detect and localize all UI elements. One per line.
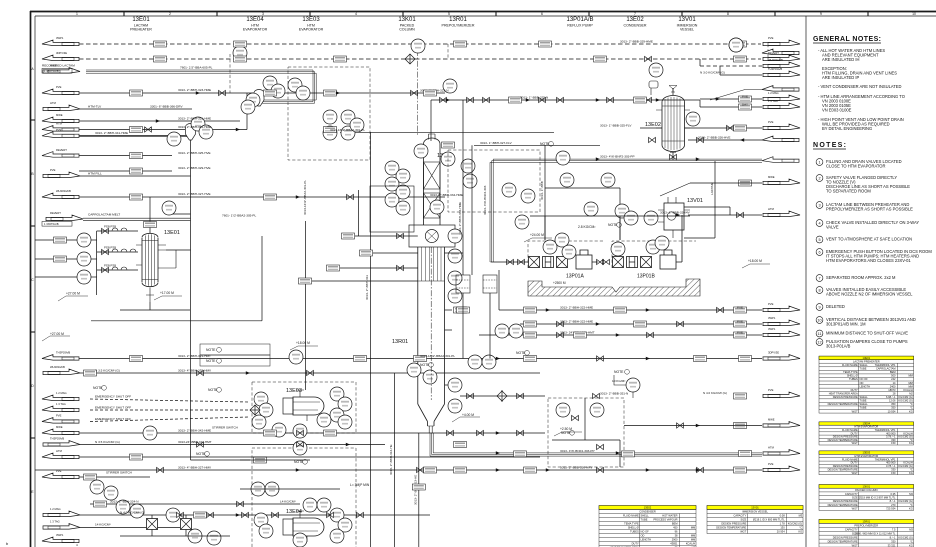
svg-text:7: 7	[634, 12, 636, 16]
wire line y515	[80, 514, 430, 516]
svg-text:KG: KG	[909, 471, 913, 475]
svg-text:WGT: WGT	[852, 507, 858, 511]
svg-text:10: 10	[817, 318, 821, 322]
svg-text:P'EB P'EB: P'EB P'EB	[104, 246, 116, 250]
svg-text:THERMINOL VP1: THERMINOL VP1	[875, 457, 896, 461]
dashed drop x448	[447, 44, 449, 59]
svg-text:2900: 2900	[672, 538, 678, 542]
svg-text:MWE: MWE	[768, 418, 775, 422]
wire valve station internals	[584, 398, 586, 440]
svg-text:13R01: 13R01	[862, 520, 870, 524]
svg-text:1 2 MAG: 1 2 MAG	[50, 507, 61, 511]
svg-text:CONDENSER: CONDENSER	[624, 24, 647, 28]
svg-text:13E01: 13E01	[164, 230, 180, 236]
svg-text:WGT: WGT	[852, 543, 858, 547]
svg-text:THERMINOL VP1: THERMINOL VP1	[875, 363, 896, 367]
svg-text:3013- 2"-BBH-327-HVE: 3013- 2"-BBH-327-HVE	[178, 192, 211, 196]
svg-text:PREPOLYMERIZER: PREPOLYMERIZER	[854, 524, 878, 528]
wire bottom pump station	[151, 515, 153, 519]
svg-text:MM: MM	[908, 381, 912, 385]
dashed enclosure 13E03	[252, 382, 356, 433]
svg-text:+27.00 M: +27.00 M	[50, 332, 64, 336]
data table 13E03	[819, 451, 914, 475]
pipe prepolymer heavy y454.5	[430, 453, 762, 456]
svg-text:3013- 2"-BBH-321-HME: 3013- 2"-BBH-321-HME	[178, 117, 211, 121]
svg-text:PVE: PVE	[56, 414, 62, 418]
svg-text:9: 9	[820, 12, 822, 16]
dashed enclosure 13E04	[252, 448, 356, 547]
data table 13E02	[599, 506, 696, 547]
line tag boxes	[54, 41, 752, 507]
svg-text:DAY: DAY	[742, 103, 748, 107]
svg-text:EMERGENCY SHUT OFF: EMERGENCY SHUT OFF	[95, 417, 131, 421]
svg-text:°C: °C	[910, 468, 913, 472]
svg-text:13K01: 13K01	[398, 17, 416, 23]
svg-text:TEMA TYPE: TEMA TYPE	[624, 522, 639, 526]
svg-text:+24.00 M: +24.00 M	[530, 233, 544, 237]
manifold box left of column	[370, 186, 414, 232]
vertical pipe labels	[303, 180, 714, 505]
dashed enclosure pump A	[528, 241, 604, 268]
svg-text:HTM: HTM	[768, 446, 775, 450]
svg-text:BEM: BEM	[672, 522, 678, 526]
vertical line fitting	[412, 484, 425, 490]
notes column divider	[805, 16, 807, 547]
svg-text:SHELL Ø: SHELL Ø	[847, 374, 858, 378]
svg-text:4: 4	[355, 12, 357, 16]
svg-text:HTM EVAPORATORS AND CLOSES 23X: HTM EVAPORATORS AND CLOSES 23XV-01	[826, 258, 911, 263]
svg-text:3013- 1"-BBB-325-N: 3013- 1"-BBB-325-N	[520, 96, 548, 100]
svg-text:EVAPORATOR: EVAPORATOR	[299, 28, 324, 32]
svg-text:3013- 4'/6'-BNF2-303: 3013- 4'/6'-BNF2-303	[483, 185, 487, 215]
svg-text:°C: °C	[910, 503, 913, 507]
svg-text:3013- 2"-BBH-325-HVE: 3013- 2"-BBH-325-HVE	[178, 151, 211, 155]
svg-text:3013- 2"-BBB-351-N: 3013- 2"-BBB-351-N	[600, 392, 628, 396]
svg-text:EMERGENCY SHUT OFF: EMERGENCY SHUT OFF	[95, 406, 131, 410]
wire line y457	[79, 456, 540, 458]
svg-text:°C: °C	[799, 526, 802, 530]
wire line y335	[479, 334, 762, 336]
svg-text:6: 6	[818, 250, 820, 254]
svg-text:CAPACITY: CAPACITY	[734, 514, 747, 518]
svg-text:+27.00 M: +27.00 M	[66, 292, 80, 296]
wire line y121	[79, 120, 240, 122]
wire left stub lines x51 circles	[91, 239, 97, 241]
wire line y171	[79, 170, 172, 172]
svg-text:HTM: HTM	[56, 449, 63, 453]
svg-text:1 2 MAG: 1 2 MAG	[768, 91, 779, 95]
svg-text:ABOVE NOZZLE N2 OF IMMERSION V: ABOVE NOZZLE N2 OF IMMERSION VESSEL	[826, 292, 913, 297]
svg-text:M3: M3	[909, 492, 913, 496]
wire dashed vent header 2	[79, 58, 761, 60]
vent assembly near 13E02	[649, 81, 658, 95]
notes heading	[813, 142, 846, 149]
svg-text:3WP1: 3WP1	[768, 316, 776, 320]
svg-text:2400: 2400	[890, 384, 896, 388]
left inbound connectors pointing right	[43, 68, 80, 530]
svg-text:20 934: 20 934	[777, 530, 785, 534]
svg-text:FLUID NAME: FLUID NAME	[842, 363, 858, 367]
svg-text:3013-24"-BBH-311-HMT: 3013-24"-BBH-311-HMT	[178, 440, 212, 444]
svg-text:SHELL Ø: SHELL Ø	[628, 526, 639, 530]
svg-text:NO OF: NO OF	[641, 530, 650, 534]
svg-text:13E01: 13E01	[863, 356, 871, 360]
svg-text:3013-16'/2'-BBA2-301-PL: 3013-16'/2'-BBA2-301-PL	[330, 128, 365, 132]
svg-text:CAPROLACTAM: CAPROLACTAM	[876, 367, 896, 371]
svg-text:PREHEATER: PREHEATER	[130, 28, 152, 32]
svg-text:3013- 4'/6'-BNF2-303-PP: 3013- 4'/6'-BNF2-303-PP	[600, 155, 635, 159]
svg-text:9: 9	[818, 305, 820, 309]
svg-text:12: 12	[817, 340, 821, 344]
svg-text:KG: KG	[909, 543, 913, 547]
wire 13E01 feed lines	[35, 239, 77, 241]
svg-text:HTM-TLV: HTM-TLV	[88, 104, 102, 108]
wire vertical x190	[190, 136, 192, 460]
svg-text:0.35: 0.35	[890, 492, 896, 496]
svg-text:3013- 1"-BBB-325-FLV: 3013- 1"-BBB-325-FLV	[600, 124, 632, 128]
svg-text:N 3.5 KG/CM² (G): N 3.5 KG/CM² (G)	[95, 369, 120, 373]
wire long line y358.5	[79, 358, 762, 360]
svg-text:DESIGN PRESSURE: DESIGN PRESSURE	[721, 522, 746, 526]
elevation marks	[160, 225, 762, 487]
svg-text:13E02: 13E02	[644, 506, 652, 510]
svg-text:M3: M3	[799, 514, 803, 518]
svg-text:350: 350	[891, 402, 896, 406]
svg-text:8: 8	[727, 12, 729, 16]
drum pot A	[456, 275, 470, 293]
svg-text:150: 150	[891, 441, 896, 445]
svg-text:Ø219 MM ID X 2 897 MM TL/TL: Ø219 MM ID X 2 897 MM TL/TL	[859, 496, 896, 500]
wire valve station outlet y425.5	[624, 425, 762, 427]
svg-text:VN E003 0100E: VN E003 0100E	[822, 108, 852, 113]
wire vertical x418.8	[418, 433, 420, 547]
svg-text:330: 330	[891, 468, 896, 472]
pump group 13P01A	[529, 250, 599, 269]
svg-text:7601- 2.5"-BBA-605-PL: 7601- 2.5"-BBA-605-PL	[180, 66, 213, 70]
general notes heading	[813, 36, 881, 43]
svg-text:PVE: PVE	[56, 469, 62, 473]
svg-text:330: 330	[891, 539, 896, 543]
dashed centerline 13K01	[417, 50, 419, 136]
svg-text:SIZE: SIZE	[741, 518, 747, 522]
svg-text:MM: MM	[691, 534, 695, 538]
svg-text:3013- 2"-BBH-341-HME: 3013- 2"-BBH-341-HME	[95, 131, 128, 135]
svg-text:PVE: PVE	[737, 306, 743, 310]
svg-text:13E04: 13E04	[246, 17, 264, 23]
svg-text:GENERAL NOTES:: GENERAL NOTES:	[813, 36, 881, 43]
svg-text:3013- 2"-BBH-329-HVE: 3013- 2"-BBH-329-HVE	[178, 166, 211, 170]
svg-text:3013- 1"-BBB: 3013- 1"-BBB	[540, 181, 544, 200]
svg-text:VALVE: VALVE	[826, 225, 839, 230]
wire slant inbound y89.5	[710, 90, 762, 101]
svg-text:NOTES:: NOTES:	[813, 142, 846, 149]
svg-text:3013- 2"-BBH-322-HME: 3013- 2"-BBH-322-HME	[560, 306, 593, 310]
svg-text:CAPACITY: CAPACITY	[845, 527, 858, 531]
svg-text:KG/CM2 (G): KG/CM2 (G)	[898, 399, 913, 403]
svg-text:HOT WATER: HOT WATER	[662, 514, 677, 518]
svg-text:M2: M2	[909, 391, 913, 395]
svg-text:DELETED: DELETED	[826, 304, 845, 309]
svg-text:DESIGN PRESSURE: DESIGN PRESSURE	[833, 535, 858, 539]
svg-text:2.8 KG/CM²: 2.8 KG/CM²	[578, 225, 596, 229]
svg-text:KCAL/H: KCAL/H	[903, 388, 912, 392]
svg-text:3013- 2"-BBB-336-HRV: 3013- 2"-BBB-336-HRV	[560, 466, 593, 470]
svg-text:+17.00 M: +17.00 M	[160, 291, 174, 295]
data table 13E01	[819, 356, 914, 413]
svg-text:725 934: 725 934	[886, 507, 896, 511]
wire line y310	[499, 309, 762, 311]
svg-text:NOTE: NOTE	[614, 370, 624, 374]
svg-text:LACTAM: LACTAM	[710, 182, 714, 195]
svg-text:1 3 TAG: 1 3 TAG	[56, 402, 66, 406]
wire line y444.5	[80, 444, 385, 446]
svg-text:ARE INSULATED IH: ARE INSULATED IH	[822, 57, 860, 62]
svg-text:KG: KG	[909, 441, 913, 445]
wire line y527.5	[80, 527, 180, 529]
drum pot B	[483, 275, 497, 293]
svg-text:8: 8	[818, 288, 820, 292]
dashed enclosure top evaporator	[288, 67, 370, 160]
note flags	[93, 142, 618, 464]
svg-text:DESIGN PRESSURE: DESIGN PRESSURE	[833, 499, 858, 503]
svg-text:P'EB P'EB: P'EB P'EB	[104, 264, 116, 268]
svg-text:PVE: PVE	[768, 388, 774, 392]
numbered notes	[826, 159, 932, 349]
svg-text:SHELL: SHELL	[860, 402, 869, 406]
svg-text:3013- 4"-BBH-327-HMV: 3013- 4"-BBH-327-HMV	[178, 466, 212, 470]
svg-text:WGT: WGT	[852, 409, 858, 413]
svg-text:TUBE: TUBE	[860, 406, 867, 410]
svg-text:PVE: PVE	[768, 302, 774, 306]
svg-text:43851: 43851	[670, 542, 678, 546]
caprolactam melt tag	[42, 222, 72, 227]
svg-text:°C: °C	[910, 406, 913, 410]
data table 13R01	[819, 519, 914, 547]
valve train mini symbols	[104, 225, 136, 271]
svg-text:SEPARATED ROOM APPROX. 2x2 M: SEPARATED ROOM APPROX. 2x2 M	[826, 275, 896, 280]
svg-text:REVERT: REVERT	[768, 51, 779, 55]
svg-text:- VENT CONDENSER ARE NOT INSUL: - VENT CONDENSER ARE NOT INSULATED	[818, 84, 902, 89]
svg-text:13V01: 13V01	[687, 198, 703, 204]
svg-text:HTM EVAPORATOR: HTM EVAPORATOR	[854, 454, 878, 458]
wire line y197	[79, 196, 445, 198]
border tick marks	[31, 12, 869, 439]
svg-text:HEAT TRANSFER AREA: HEAT TRANSFER AREA	[829, 391, 858, 395]
vessel 13R01 prepolymerizer	[410, 247, 452, 433]
svg-text:13K01: 13K01	[863, 484, 871, 488]
svg-text:EVAPORATOR: EVAPORATOR	[243, 28, 268, 32]
control valve right of R01	[626, 378, 640, 392]
svg-text:8 / -1: 8 / -1	[890, 499, 896, 503]
svg-text:1: 1	[818, 160, 820, 164]
svg-text:BEM: BEM	[890, 370, 896, 374]
svg-text:PVE: PVE	[768, 36, 774, 40]
recovered lactam tag	[42, 69, 72, 74]
svg-text:PVE: PVE	[56, 85, 62, 89]
svg-text:SIZE: SIZE	[852, 496, 858, 500]
svg-text:NOTE: NOTE	[206, 348, 216, 352]
svg-text:PVE: PVE	[737, 320, 743, 324]
svg-text:EMERGENCY SHUT OFF: EMERGENCY SHUT OFF	[95, 395, 131, 399]
svg-text:3WP1: 3WP1	[56, 533, 64, 537]
extra balloons clusters	[90, 38, 743, 512]
svg-text:IMMERSION VESSEL: IMMERSION VESSEL	[742, 510, 768, 514]
wire line y477	[79, 476, 150, 478]
svg-text:13E04: 13E04	[286, 509, 302, 515]
vessel 13E02 condenser	[656, 86, 690, 153]
wire line y373	[80, 372, 540, 374]
svg-text:WH3034A/B: WH3034A/B	[768, 58, 783, 62]
svg-text:LACTAM PREHEATER: LACTAM PREHEATER	[853, 359, 880, 363]
R01 left feed lines	[306, 221, 418, 390]
wire vertical x431 column feed	[430, 100, 432, 141]
svg-text:+18.00 M: +18.00 M	[296, 341, 310, 345]
svg-text:10 KG/M²: 10 KG/M²	[612, 379, 625, 383]
stirrer switch labels	[106, 95, 748, 475]
svg-text:N 4.0 KG/CM² (G): N 4.0 KG/CM² (G)	[703, 391, 727, 395]
svg-text:1 3 TAG: 1 3 TAG	[50, 520, 60, 524]
column 13K01 packed column	[424, 134, 441, 225]
instrument balloons	[77, 39, 700, 547]
svg-text:3013- 1"-BBH-327-FLV: 3013- 1"-BBH-327-FLV	[480, 141, 513, 145]
svg-text:MWE: MWE	[50, 64, 57, 68]
svg-text:VENT TO ATMOSPHERE AT SAFE LOC: VENT TO ATMOSPHERE AT SAFE LOCATION	[826, 237, 912, 242]
wire line y132	[340, 131, 554, 133]
svg-text:REVERT: REVERT	[50, 211, 61, 215]
wire 13E02 bottom to heavy line	[672, 152, 674, 160]
svg-text:3013P01A/B MIN. 1M: 3013P01A/B MIN. 1M	[826, 322, 866, 327]
note boxes near valves	[200, 344, 270, 366]
heat exchanger 13E04	[283, 511, 324, 542]
wire line y93	[79, 92, 445, 94]
wire line y183	[690, 182, 762, 184]
svg-text:OD: OD	[641, 534, 645, 538]
svg-text:13P01A/B: 13P01A/B	[566, 17, 593, 23]
svg-text:3013- 4"-BBH-355-HMV: 3013- 4"-BBH-355-HMV	[178, 369, 212, 373]
svg-text:DUTY: DUTY	[851, 461, 858, 465]
funnel seal pot mid	[186, 124, 196, 141]
svg-text:10: 10	[912, 12, 916, 16]
svg-text:PREPOLYMERIZER: PREPOLYMERIZER	[442, 24, 475, 28]
dashed drop x768	[767, 44, 769, 59]
frame left border	[30, 11, 32, 547]
svg-text:+4.00 M: +4.00 M	[462, 413, 474, 417]
svg-text:PVE: PVE	[50, 168, 56, 172]
pump group 13P01B	[613, 215, 683, 269]
svg-text:CAPACITY: CAPACITY	[845, 492, 858, 496]
svg-text:8 / -1: 8 / -1	[890, 535, 896, 539]
svg-text:NOTE: NOTE	[206, 359, 216, 363]
valve station balloons	[556, 403, 570, 417]
diamond junction x502	[497, 391, 507, 401]
svg-text:3013- 2"-BBH-334-HME: 3013- 2"-BBH-334-HME	[430, 193, 463, 197]
svg-text:CHECK VALVE INSTALLED DIRECTLY: CHECK VALVE INSTALLED DIRECTLY ON 3-WAY	[826, 220, 919, 225]
svg-text:13V01: 13V01	[751, 506, 759, 510]
wire line y145	[474, 144, 600, 146]
svg-text:DUTY: DUTY	[632, 542, 639, 546]
svg-text:3013- 2"-BBH-342-HME: 3013- 2"-BBH-342-HME	[178, 429, 211, 433]
extra tag boxes	[84, 41, 647, 518]
svg-text:13E01: 13E01	[132, 17, 150, 23]
svg-text:+18.00 M: +18.00 M	[748, 259, 762, 263]
wire right stubs y66 y75	[700, 65, 762, 67]
svg-text:3013-P01A/B: 3013-P01A/B	[826, 344, 851, 349]
svg-text:KG/CM2 (G): KG/CM2 (G)	[898, 535, 913, 539]
svg-text:SHELL: SHELL	[860, 363, 869, 367]
svg-text:DESIGN TEMPERATURE: DESIGN TEMPERATURE	[828, 402, 858, 406]
svg-text:N 3.5 KG/CM² (G): N 3.5 KG/CM² (G)	[95, 440, 120, 444]
dashed enclosure column right	[448, 150, 540, 212]
svg-text:PVE: PVE	[768, 120, 774, 124]
svg-text:WGT: WGT	[852, 441, 858, 445]
svg-text:18973: 18973	[888, 388, 896, 392]
wire long line y470	[35, 469, 762, 471]
svg-text:COLUMN: COLUMN	[399, 28, 415, 32]
wire line y253	[445, 252, 464, 254]
svg-text:14 KG/CM²: 14 KG/CM²	[95, 523, 110, 527]
wire vertical x370	[370, 132, 372, 547]
svg-text:1.78: 1.78	[780, 522, 786, 526]
diamond junction vent	[405, 54, 415, 64]
svg-text:1 3X0T0A/B: 1 3X0T0A/B	[44, 222, 59, 226]
wire line y140 inbound	[688, 139, 762, 141]
svg-text:3DPV/3E: 3DPV/3E	[56, 51, 67, 55]
right inbound connectors pointing left	[762, 49, 799, 162]
left off-page connectors	[42, 40, 79, 479]
wire line y155.6	[79, 155, 172, 157]
bottom lines additions	[240, 460, 340, 489]
wire emergency shutoff dashed	[90, 399, 248, 402]
svg-text:DESIGN TEMPERATURE: DESIGN TEMPERATURE	[716, 526, 746, 530]
wire 13V01 outlet y215	[688, 214, 762, 216]
svg-text:400 000: 400 000	[886, 461, 896, 465]
svg-text:VESSEL: VESSEL	[680, 28, 694, 32]
svg-text:MWE: MWE	[56, 425, 63, 429]
flow arrowheads	[156, 91, 744, 516]
svg-text:HTM: HTM	[768, 207, 775, 211]
svg-text:6: 6	[541, 12, 543, 16]
svg-text:TUBES: TUBES	[849, 377, 858, 381]
wire vertical x620	[619, 188, 621, 240]
svg-text:242: 242	[891, 377, 896, 381]
svg-text:TH3P03A/B: TH3P03A/B	[56, 351, 70, 355]
svg-text:PREPOLYMERIZER AS SHORT AS POS: PREPOLYMERIZER AS SHORT AS POSSIBLE	[826, 207, 913, 212]
svg-text:KCAL/H: KCAL/H	[686, 542, 695, 546]
frame top border	[30, 11, 936, 13]
svg-text:270: 270	[891, 503, 896, 507]
general notes body	[818, 48, 905, 131]
svg-text:REFLUX PUMP: REFLUX PUMP	[567, 24, 593, 28]
wire vertical x545	[544, 145, 546, 240]
svg-text:KG: KG	[909, 409, 913, 413]
wire line y136 double	[79, 135, 191, 137]
svg-text:1: 1	[76, 12, 78, 16]
svg-text:7.5: 7.5	[892, 527, 896, 531]
vessel 13V01 immersion vessel	[658, 197, 690, 238]
svg-text:CAPROLACTAM MELT: CAPROLACTAM MELT	[88, 213, 120, 217]
svg-text:FLUID NAME: FLUID NAME	[842, 457, 858, 461]
diamond junction emergency	[250, 405, 260, 415]
svg-text:REVERT: REVERT	[56, 148, 67, 152]
svg-text:130: 130	[780, 526, 785, 530]
svg-text:DESIGN PRESSURE: DESIGN PRESSURE	[833, 395, 858, 399]
svg-text:3DPV/3E: 3DPV/3E	[768, 351, 779, 355]
svg-text:ARE INSULATED IP: ARE INSULATED IP	[822, 75, 860, 80]
svg-text:4: 4	[818, 221, 820, 225]
valves	[145, 56, 744, 517]
connector sub-labels	[50, 36, 783, 537]
svg-text:13R01: 13R01	[392, 339, 408, 345]
